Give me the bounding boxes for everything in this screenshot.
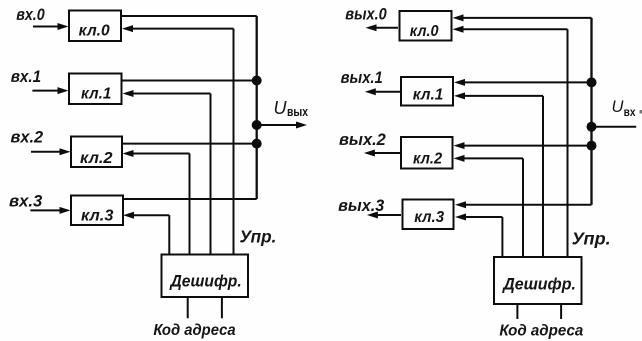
wire: кл.1 output to bus junction: [123, 80, 257, 82]
wire: control into кл.3 with arrow, from vertical at x=169.3: [123, 212, 169, 254]
switch box кл.2 (right): [401, 137, 453, 169]
node: junction dot кл.1 signal tap: [587, 77, 597, 87]
label Упр. (left): [240, 227, 277, 247]
label Код адреса (left): [153, 322, 236, 339]
wire: signal from bus into кл.0 with arrow (top corner of bus): [453, 14, 592, 21]
svg-text:Код адреса: Код адреса: [153, 322, 236, 339]
wire: address input stub 1 (right decoder): [516, 304, 518, 319]
wire: right input bus vertical: [590, 18, 592, 205]
wire: signal from bus into кл.2 with arrow (bus junction dot): [454, 142, 592, 149]
svg-text:кл.1: кл.1: [81, 86, 111, 103]
wire: control into кл.2 with arrow, from vertical at x=189.5: [123, 150, 190, 254]
wire: control into кл.1 (right) with arrow, from vertical at x=543: [454, 92, 543, 256]
wire: кл.3 output to bus (bottom corner): [123, 198, 257, 200]
svg-text:вых: вых: [287, 105, 308, 119]
label U_вых: [274, 98, 309, 119]
svg-text:вых.0: вых.0: [345, 4, 387, 23]
svg-text:кл.2: кл.2: [413, 151, 442, 168]
wire: U_вх input line from right edge: [592, 126, 637, 128]
node: junction dot кл.1 output: [252, 76, 262, 86]
wire: control into кл.0 with arrow, from vertical at x=234: [122, 25, 234, 253]
svg-text:вых.1: вых.1: [341, 68, 383, 87]
wire: address input stub 2 (left decoder): [221, 297, 223, 318]
svg-text:вых.2: вых.2: [339, 130, 386, 149]
wire: signal from bus into кл.3 with arrow (bottom corner of bus): [455, 201, 592, 208]
label вх.1: [11, 67, 41, 86]
svg-text:Код адреса: Код адреса: [499, 323, 583, 340]
svg-text:U: U: [274, 98, 288, 118]
wire: вх.0 input arrow into кл.0: [33, 23, 69, 30]
wire: вых.2 output arrow from кл.2: [364, 150, 400, 157]
svg-text:вх.2: вх.2: [11, 128, 44, 147]
label вых.2: [339, 130, 386, 149]
label вх.2: [11, 128, 44, 147]
wire: address input stub 1 (left decoder): [187, 297, 189, 318]
label U_вх: [612, 98, 637, 119]
wire: signal from bus into кл.1 with arrow (bus junction dot): [454, 79, 592, 86]
decoder box Дешифр. (left): [162, 255, 249, 298]
svg-text:вх.3: вх.3: [9, 192, 43, 211]
switch box кл.2 (left): [71, 137, 122, 168]
svg-text:Упр.: Упр.: [572, 229, 611, 249]
decoder box Дешифр. (right): [494, 257, 582, 304]
label вых.3: [338, 196, 385, 215]
wire: кл.2 output to bus junction: [123, 143, 257, 145]
wire: control into кл.2 (right) with arrow, from vertical at x=523: [454, 155, 524, 256]
svg-text:кл.2: кл.2: [80, 150, 113, 167]
node: junction dot кл.2 output: [252, 139, 262, 149]
node: junction dot U_вых tap: [252, 120, 262, 130]
node: junction dot кл.2 signal tap: [587, 141, 597, 151]
wire: address input stub 2 (right decoder): [560, 304, 562, 319]
switch box кл.1 (right): [401, 77, 453, 106]
label вх.0: [16, 5, 45, 24]
svg-text:кл.3: кл.3: [81, 208, 114, 225]
svg-text:кл.0: кл.0: [410, 23, 439, 40]
switch box кл.3 (right): [403, 200, 454, 230]
wire: вых.1 output arrow from кл.1: [365, 88, 400, 95]
wire: U_вых output arrow: [257, 122, 307, 129]
svg-text:Упр.: Упр.: [240, 227, 277, 247]
label Код адреса (right): [499, 323, 583, 340]
wire: вых.3 output arrow from кл.3: [367, 212, 401, 219]
wire: кл.0 output to bus (top corner): [122, 15, 257, 17]
wire: left output bus vertical: [256, 16, 258, 199]
svg-text:кл.3: кл.3: [414, 209, 444, 226]
switch box кл.0 (left): [69, 11, 121, 42]
svg-text:Дешифр.: Дешифр.: [169, 272, 242, 290]
wire: control into кл.0 (right) with arrow, from vertical at x=567.5: [453, 26, 568, 256]
wire: вх.3 input arrow into кл.3: [30, 207, 70, 214]
svg-text:кл.0: кл.0: [79, 22, 110, 39]
node: junction dot U_вх feed: [587, 122, 597, 132]
label вых.1: [341, 68, 383, 87]
svg-text:Дешифр.: Дешифр.: [501, 276, 576, 294]
switch box кл.3 (left): [71, 196, 123, 226]
wire: вх.2 input arrow into кл.2: [31, 148, 71, 155]
wire: control into кл.3 (right) with arrow, from vertical at x=502.4: [455, 214, 502, 257]
svg-text:кл.1: кл.1: [413, 87, 444, 104]
wire: вх.1 input arrow into кл.1: [32, 87, 68, 94]
wire: control into кл.1 with arrow, from vertical at x=210.5: [123, 90, 211, 254]
label вх.3: [9, 192, 43, 211]
svg-text:вх.0: вх.0: [16, 5, 45, 24]
stray mark at right edge: [640, 110, 642, 114]
svg-text:вх: вх: [624, 107, 636, 119]
svg-text:U: U: [612, 98, 624, 116]
switch box кл.1 (left): [69, 74, 122, 105]
wire: вых.0 output arrow from кл.0: [366, 24, 399, 31]
label Упр. (right): [572, 229, 611, 249]
svg-text:вх.1: вх.1: [11, 67, 41, 86]
label вых.0: [345, 4, 387, 23]
switch box кл.0 (right): [400, 11, 452, 41]
